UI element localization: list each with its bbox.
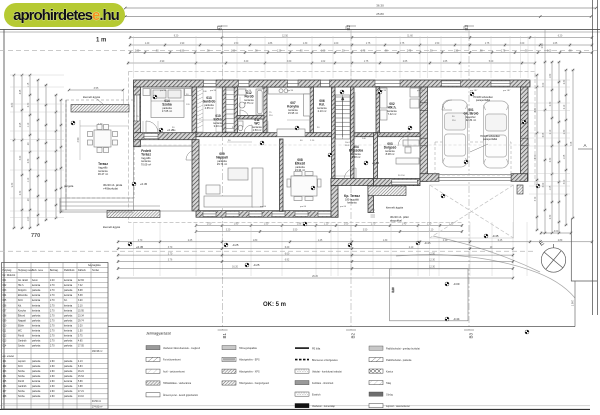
- svg-text:2.70: 2.70: [50, 315, 55, 317]
- car 1 in garage: [443, 100, 468, 167]
- contour dashed line upper: [0, 50, 600, 52]
- svg-text:parketta: parketta: [64, 390, 73, 393]
- wall garage left: [420, 87, 428, 181]
- svg-text:1.50: 1.50: [78, 331, 83, 333]
- svg-text:4.90: 4.90: [160, 61, 165, 63]
- svg-text:15.95: 15.95: [78, 310, 84, 312]
- svg-text:16.21: 16.21: [78, 371, 84, 373]
- svg-text:pergola: pergola: [64, 184, 74, 188]
- room label WC: [252, 118, 262, 132]
- svg-text:kerámia: kerámia: [32, 335, 41, 338]
- svg-text:1.50: 1.50: [454, 51, 459, 53]
- room label Fürdő: [244, 91, 254, 105]
- svg-text:1.50: 1.50: [540, 43, 544, 49]
- dim chain under living band 2: [195, 230, 463, 233]
- svg-text:OK: 5 m: OK: 5 m: [263, 302, 286, 308]
- svg-text:pm 90: pm 90: [160, 90, 167, 92]
- svg-text:Szoba: Szoba: [18, 371, 25, 373]
- window utility top: [375, 80, 400, 87]
- svg-text:pm 187: pm 187: [503, 90, 511, 92]
- svg-text:2.25: 2.25: [188, 240, 193, 242]
- svg-text:parketta: parketta: [64, 365, 73, 368]
- svg-text:Feltöltés - tömörített: Feltöltés - tömörített: [312, 382, 334, 385]
- svg-text:Étkező: Étkező: [295, 161, 305, 166]
- kitchen counter 007: [268, 88, 310, 137]
- svg-text:6.00: 6.00: [543, 182, 545, 187]
- door bedroom to terrace: [144, 133, 158, 139]
- svg-text:parketta: parketta: [32, 319, 41, 322]
- svg-text:1.65: 1.65: [443, 61, 448, 63]
- garage door opening: [439, 174, 511, 181]
- svg-text:3.70: 3.70: [168, 253, 173, 255]
- partition utility left: [376, 87, 380, 133]
- svg-text:2.75: 2.75: [407, 51, 412, 53]
- wall garage bottom right: [511, 174, 528, 182]
- svg-text:parketta: parketta: [32, 395, 41, 398]
- svg-text:2.10: 2.10: [409, 247, 414, 249]
- svg-text:1.75: 1.75: [366, 43, 371, 45]
- svg-text:3.76: 3.76: [168, 260, 173, 262]
- room list table (helyiseglista): [2, 263, 109, 409]
- svg-text:3.20: 3.20: [78, 326, 83, 328]
- svg-text:2.60: 2.60: [50, 381, 55, 383]
- svg-text:kerámia: kerámia: [141, 159, 151, 163]
- wall exterior left of bedroom block: [134, 87, 141, 147]
- lower dimension chain 5: [117, 267, 514, 270]
- sofa living room 009: [204, 168, 263, 207]
- svg-text:parketta: parketta: [32, 370, 41, 373]
- svg-text:pm 60: pm 60: [300, 206, 307, 208]
- svg-text:1.45: 1.45: [318, 240, 323, 242]
- door swing bedroom: [146, 121, 158, 133]
- label garage parapet note: [470, 95, 501, 152]
- svg-text:kerámia: kerámia: [32, 299, 41, 302]
- svg-text:3.00: 3.00: [547, 51, 552, 53]
- desk study 003: [396, 140, 419, 164]
- watermark logo aprohirdetese.hu: [4, 3, 125, 27]
- legend column finishes: [369, 346, 420, 408]
- svg-text:-0.44: -0.44: [453, 317, 460, 321]
- svg-text:Terász: Terász: [141, 153, 151, 157]
- terrace mini dim 4.30: [80, 123, 128, 126]
- svg-text:Gk. tároló: Gk. tároló: [464, 112, 479, 116]
- svg-text:Szoba: Szoba: [18, 376, 25, 378]
- svg-text:3.20: 3.20: [226, 230, 231, 232]
- svg-text:1.02: 1.02: [321, 61, 326, 63]
- svg-text:42.84 m²: 42.84 m²: [466, 118, 476, 122]
- svg-text:Hőszigetelés - hangszigetelt: Hőszigetelés - hangszigetelt: [239, 382, 269, 385]
- svg-text:2.70: 2.70: [50, 290, 55, 292]
- left sheet border: [3, 30, 5, 410]
- extension lines top: [134, 36, 536, 78]
- svg-text:Terület: Terület: [92, 269, 99, 272]
- svg-text:fsz.: fsz.: [64, 300, 68, 302]
- svg-text:7.08: 7.08: [571, 141, 573, 146]
- svg-text:25.80: 25.80: [376, 12, 384, 16]
- svg-text:6.60: 6.60: [285, 253, 290, 255]
- svg-text:4.65 m²: 4.65 m²: [205, 106, 214, 110]
- svg-text:1.70: 1.70: [371, 224, 376, 226]
- svg-text:2.30: 2.30: [550, 101, 552, 106]
- extension lines right: [529, 80, 570, 194]
- svg-text:2.70: 2.70: [50, 331, 55, 333]
- svg-text:kerámia: kerámia: [32, 325, 41, 328]
- svg-text:Htk.h.: Htk.h.: [18, 284, 24, 287]
- svg-text:1.997: 1.997: [571, 299, 575, 306]
- top dimension chain row 1: [129, 36, 593, 39]
- svg-text:kerámia: kerámia: [64, 304, 73, 307]
- svg-text:1.50 m²: 1.50 m²: [253, 128, 262, 132]
- svg-text:Étkező: Étkező: [18, 314, 26, 317]
- svg-text:2.10: 2.10: [550, 129, 552, 134]
- svg-text:2.60: 2.60: [50, 376, 55, 378]
- window wardrobe top: [204, 80, 217, 87]
- svg-text:2.70: 2.70: [50, 336, 55, 338]
- wall mid horizontal: [196, 133, 420, 137]
- svg-text:Fa tetőszerkezet: Fa tetőszerkezet: [163, 359, 181, 362]
- svg-text:2.30: 2.30: [550, 214, 552, 219]
- svg-text:1.60: 1.60: [550, 73, 552, 78]
- svg-text:-0.25: -0.25: [232, 243, 239, 247]
- svg-text:em. emelet: em. emelet: [3, 355, 15, 358]
- svg-text:Közl.: Közl.: [18, 366, 23, 368]
- svg-text:aprohirdetese.hu: aprohirdetese.hu: [13, 7, 120, 24]
- partition bathroom/wc: [237, 116, 264, 120]
- svg-text:2.20: 2.20: [135, 51, 140, 53]
- svg-text:36.47 m²: 36.47 m²: [98, 172, 108, 176]
- svg-text:Helyiség: Helyiség: [3, 270, 13, 272]
- walkway label 30x30 vb jarda: [103, 183, 123, 190]
- svg-text:kerámia: kerámia: [98, 169, 108, 173]
- right border lower vertical: [571, 281, 575, 327]
- svg-text:1.00: 1.00: [207, 224, 212, 226]
- svg-text:parketta: parketta: [64, 395, 73, 398]
- roof overhang dashed outline: [129, 72, 536, 223]
- partition living/dining none: [280, 139, 284, 211]
- svg-text:1.80: 1.80: [253, 240, 258, 242]
- terrace outline left: [60, 100, 133, 212]
- left dimension chain 2: [20, 74, 23, 229]
- svg-text:2.30: 2.30: [20, 190, 22, 195]
- svg-text:5.38: 5.38: [78, 295, 83, 297]
- right house dim chain: [535, 74, 538, 231]
- svg-text:2.60: 2.60: [50, 391, 55, 393]
- tiny dimension annotations: [136, 90, 511, 208]
- svg-text:12.50: 12.50: [429, 253, 435, 255]
- svg-text:2.30: 2.30: [28, 158, 30, 163]
- svg-text:13.10: 13.10: [78, 396, 84, 398]
- svg-text:2.70: 2.70: [138, 240, 143, 242]
- partition bathroom/kitchen: [263, 87, 267, 133]
- svg-text:Talaj: Talaj: [386, 382, 391, 385]
- wc fixture 011: [238, 121, 243, 131]
- compass north symbol: [541, 244, 565, 272]
- legend column structures: [146, 346, 201, 398]
- svg-text:160.95 m²: 160.95 m²: [92, 350, 103, 353]
- svg-text:parketta: parketta: [32, 375, 41, 378]
- svg-text:3.20: 3.20: [244, 61, 249, 63]
- svg-text:3.50: 3.50: [293, 230, 298, 232]
- svg-text:parketta: parketta: [32, 345, 41, 348]
- partition kitchen/pantry: [310, 87, 314, 133]
- svg-text:2.40: 2.40: [50, 280, 55, 282]
- svg-text:Szoba: Szoba: [18, 346, 25, 348]
- svg-text:Kavics: Kavics: [386, 370, 394, 373]
- svg-text:4.65: 4.65: [78, 341, 83, 343]
- svg-text:Gk. tároló: Gk. tároló: [18, 279, 29, 282]
- partition shaft/bathroom: [234, 87, 238, 133]
- svg-text:15.64: 15.64: [78, 376, 84, 378]
- bathtub 012: [238, 89, 264, 115]
- svg-text:parketta: parketta: [32, 289, 41, 292]
- svg-text:1.86: 1.86: [180, 51, 185, 53]
- wardrobe shelving 013: [197, 88, 222, 132]
- svg-text:23.34 m²: 23.34 m²: [295, 168, 305, 172]
- svg-text:+0.45: +0.45: [140, 182, 148, 186]
- svg-text:1.00: 1.00: [344, 224, 349, 226]
- svg-text:15.95 m²: 15.95 m²: [288, 111, 298, 115]
- partition stair/utility: [351, 87, 355, 179]
- svg-text:Vakolat - homlokzati vakolat: Vakolat - homlokzati vakolat: [312, 370, 342, 373]
- covered terrace outline: [134, 146, 197, 211]
- svg-text:1.40: 1.40: [145, 43, 150, 45]
- svg-text:5.69: 5.69: [78, 381, 83, 383]
- svg-text:+0.15: +0.15: [372, 161, 380, 165]
- svg-text:1.05: 1.05: [564, 154, 566, 159]
- svg-text:Hőblokkfalas - vázkerámia: Hőblokkfalas - vázkerámia: [163, 382, 192, 385]
- room label Gk. tároló: [464, 108, 479, 122]
- right dimension chain 3: [557, 61, 560, 234]
- svg-text:+0.25: +0.25: [167, 128, 175, 132]
- svg-text:8.08 m²: 8.08 m²: [386, 152, 395, 156]
- svg-text:2.10: 2.10: [78, 305, 83, 307]
- dining table 008: [287, 172, 321, 201]
- legend column membranes: [295, 347, 342, 408]
- svg-text:Előszoba: Előszoba: [18, 295, 28, 297]
- wall kp terasz left: [331, 179, 338, 218]
- lower dimension chain 4: [117, 260, 514, 263]
- svg-text:B3: B3: [469, 333, 474, 339]
- svg-text:kerámia: kerámia: [64, 335, 73, 338]
- svg-text:12.30: 12.30: [429, 267, 435, 269]
- door swing wc: [244, 125, 252, 133]
- svg-text:29.74 m²: 29.74 m²: [217, 162, 227, 166]
- svg-text:3.20: 3.20: [20, 155, 22, 160]
- svg-text:2.60: 2.60: [50, 386, 55, 388]
- svg-text:Helyiség neve: Helyiség neve: [18, 270, 33, 272]
- svg-text:26.20: 26.20: [312, 276, 318, 278]
- svg-text:1.50: 1.50: [264, 224, 269, 226]
- svg-text:2.60: 2.60: [50, 361, 55, 363]
- svg-text:pm 60: pm 60: [340, 206, 347, 208]
- site boundary horizontal y327: [108, 326, 575, 328]
- label Terasz: [98, 162, 108, 176]
- svg-text:Hőszigetelés - XPS: Hőszigetelés - XPS: [239, 370, 260, 373]
- car 2 in garage: [484, 101, 509, 168]
- svg-text:Szoba: Szoba: [18, 396, 25, 398]
- svg-text:-0.25: -0.25: [253, 263, 260, 267]
- partition hall/study: [374, 133, 378, 179]
- legend column insulation: [222, 346, 269, 386]
- svg-text:12.30: 12.30: [429, 260, 435, 262]
- svg-text:274.82 m²: 274.82 m²: [92, 405, 103, 408]
- svg-text:2.89: 2.89: [558, 240, 563, 242]
- svg-text:parketta: parketta: [64, 289, 73, 292]
- svg-text:Padlóburk.: Padlóburk.: [64, 269, 75, 272]
- svg-text:7.42 m²: 7.42 m²: [388, 112, 397, 116]
- extension lines left: [10, 75, 64, 218]
- utility counters 002: [380, 88, 419, 120]
- svg-text:3.20: 3.20: [78, 300, 83, 302]
- svg-text:1.50: 1.50: [234, 43, 239, 45]
- svg-text:17.05 m²: 17.05 m²: [162, 109, 172, 113]
- elevation labels: [136, 128, 499, 321]
- svg-text:1 m: 1 m: [96, 38, 106, 44]
- svg-text:parketta: parketta: [64, 345, 73, 348]
- svg-text:alapokkal: alapokkal: [390, 218, 402, 222]
- left dimension chain 5: [44, 84, 47, 221]
- svg-text:Falburk.: Falburk.: [78, 269, 87, 272]
- right top vertical line 1.50: [540, 30, 545, 62]
- svg-text:B2: B2: [351, 333, 356, 339]
- svg-text:23.34: 23.34: [78, 315, 84, 317]
- svg-text:3.00: 3.00: [554, 231, 559, 233]
- svg-text:12.50: 12.50: [282, 36, 288, 38]
- svg-text:4.70: 4.70: [535, 154, 537, 159]
- svg-text:2.30: 2.30: [564, 129, 566, 134]
- bottom sheet border: [0, 406, 590, 410]
- svg-text:parapetfallal: parapetfallal: [483, 137, 498, 141]
- svg-text:B2: B2: [346, 25, 351, 31]
- svg-text:1.80: 1.80: [234, 224, 239, 226]
- planter bed east: [368, 186, 406, 196]
- wall kp terasz back: [331, 179, 374, 186]
- svg-text:36.30: 36.30: [376, 4, 384, 8]
- svg-text:kerámia: kerámia: [32, 294, 41, 297]
- svg-text:16x17.5: 16x17.5: [345, 142, 354, 144]
- window living band 1: [203, 211, 216, 217]
- label Kp Terasz: [344, 194, 360, 205]
- lower dimension chain 3: [117, 254, 514, 257]
- svg-text:11.60: 11.60: [407, 36, 413, 38]
- room label Nappali: [216, 152, 228, 166]
- svg-text:Htk.h.: Htk.h.: [388, 106, 397, 110]
- svg-text:2.10: 2.10: [443, 240, 448, 242]
- wall living room left / terrace pillar: [192, 140, 199, 211]
- svg-text:1.30: 1.30: [277, 51, 282, 53]
- svg-text:1.40: 1.40: [402, 224, 407, 226]
- left terrace dim chain 2: [59, 99, 62, 213]
- room label Ksl.: [317, 99, 327, 113]
- svg-text:Belmag.: Belmag.: [50, 270, 59, 272]
- wall exterior top: [134, 80, 531, 87]
- right dimension chain 4: [564, 69, 567, 226]
- svg-text:4.50: 4.50: [77, 137, 80, 142]
- svg-text:Szoba: Szoba: [162, 103, 172, 107]
- svg-text:WC: WC: [18, 331, 22, 333]
- svg-text:1.30: 1.30: [303, 43, 308, 45]
- svg-text:parketta: parketta: [32, 360, 41, 363]
- svg-text:3.55: 3.55: [94, 87, 99, 90]
- svg-text:Előszoba: Előszoba: [349, 149, 363, 153]
- svg-text:parapetfallal: parapetfallal: [476, 98, 491, 102]
- svg-text:Esztrich: Esztrich: [312, 393, 321, 396]
- right sheet border double: [593, 0, 598, 315]
- planter top label: [83, 95, 103, 104]
- svg-text:+4ßburkolat: +4ßburkolat: [103, 186, 118, 190]
- svg-text:1.30: 1.30: [383, 240, 388, 242]
- svg-text:7.42: 7.42: [78, 285, 83, 287]
- svg-text:Gardrób: Gardrób: [18, 385, 27, 388]
- top dimension chain row 2: [129, 43, 593, 46]
- svg-text:2.60: 2.60: [50, 396, 55, 398]
- svg-text:B1: B1: [222, 333, 227, 339]
- interior mini dims: [143, 92, 420, 176]
- right inner vertical 7.08: [571, 69, 574, 219]
- svg-text:1.86: 1.86: [268, 43, 273, 45]
- svg-text:1.00: 1.00: [334, 43, 339, 45]
- svg-text:Terasz: Terasz: [98, 162, 108, 166]
- svg-text:parketta: parketta: [64, 319, 73, 322]
- svg-text:5.75: 5.75: [78, 336, 83, 338]
- window kitchen top: [288, 80, 299, 87]
- partition bedroom/wardrobe: [192, 87, 197, 133]
- svg-text:parketta: parketta: [32, 365, 41, 368]
- svg-text:6.20: 6.20: [285, 247, 290, 249]
- window living band 5: [295, 211, 308, 217]
- svg-text:kerámia: kerámia: [64, 294, 73, 297]
- svg-text:1.50: 1.50: [435, 43, 440, 45]
- svg-text:Dolgozó: Dolgozó: [18, 290, 27, 292]
- svg-text:1.75: 1.75: [361, 51, 366, 53]
- svg-text:6.60: 6.60: [12, 102, 14, 107]
- svg-text:5.60: 5.60: [489, 61, 494, 63]
- window garage top 1: [442, 81, 461, 87]
- kp terasz steps: [371, 210, 376, 217]
- svg-text:kerámia: kerámia: [32, 380, 41, 383]
- window bathroom top: [239, 80, 250, 87]
- staircase main: [336, 95, 351, 139]
- svg-text:2.60: 2.60: [50, 371, 55, 373]
- svg-text:pm 60: pm 60: [260, 206, 267, 208]
- svg-text:17.21: 17.21: [78, 391, 84, 393]
- pillar east: [517, 185, 523, 194]
- room label Szoba: [162, 99, 172, 113]
- wall kp terasz right: [368, 179, 374, 213]
- svg-text:parketta: parketta: [64, 385, 73, 388]
- svg-text:Burk. neve: Burk. neve: [32, 269, 44, 272]
- driveway cross pattern: [430, 185, 514, 238]
- dim chain above wall: [127, 61, 536, 64]
- dim chain under living band: [195, 224, 463, 227]
- svg-text:6.63: 6.63: [78, 366, 83, 368]
- svg-text:2.70: 2.70: [50, 285, 55, 287]
- top dimension chain row 3: [129, 51, 593, 54]
- svg-text:Acél - tartószerkezet: Acél - tartószerkezet: [163, 370, 185, 373]
- section line B3: [464, 25, 474, 339]
- svg-text:1.90: 1.90: [180, 43, 185, 45]
- svg-text:-0.09: -0.09: [453, 282, 460, 286]
- svg-text:70.09 m²: 70.09 m²: [141, 162, 151, 166]
- svg-text:Lépcső: Lépcső: [18, 361, 26, 363]
- svg-text:Konyha: Konyha: [18, 310, 27, 312]
- site boundary right L: [571, 219, 597, 282]
- stair shaft treads left: [226, 88, 234, 132]
- svg-text:Közl.: Közl.: [18, 300, 23, 302]
- svg-text:fsz. földszint: fsz. földszint: [3, 274, 16, 277]
- left dimension chain outer: [12, 74, 15, 229]
- svg-text:2.70: 2.70: [50, 310, 55, 312]
